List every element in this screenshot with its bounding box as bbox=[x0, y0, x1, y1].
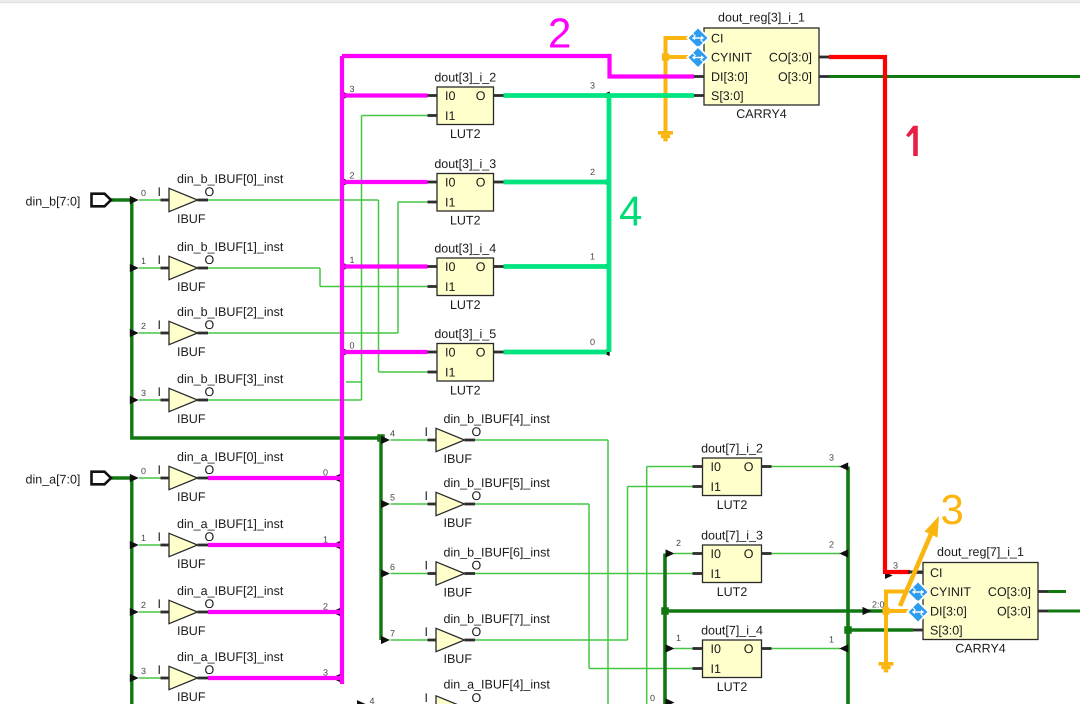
svg-text:2: 2 bbox=[323, 602, 328, 612]
svg-text:I1: I1 bbox=[711, 567, 721, 581]
svg-text:O[3:0]: O[3:0] bbox=[997, 605, 1031, 619]
svg-text:CI: CI bbox=[711, 32, 724, 46]
svg-text:IBUF: IBUF bbox=[444, 652, 473, 666]
svg-text:0: 0 bbox=[141, 466, 146, 476]
svg-text:I1: I1 bbox=[711, 480, 721, 494]
svg-text:I1: I1 bbox=[445, 366, 455, 380]
svg-text:IBUF: IBUF bbox=[444, 586, 473, 600]
svg-text:5: 5 bbox=[390, 493, 395, 503]
svg-text:4: 4 bbox=[370, 696, 375, 704]
svg-text:I1: I1 bbox=[711, 662, 721, 676]
svg-text:LUT2: LUT2 bbox=[717, 585, 748, 599]
svg-text:I1: I1 bbox=[445, 196, 455, 210]
svg-text:din_a_IBUF[1]_inst: din_a_IBUF[1]_inst bbox=[177, 517, 284, 531]
svg-text:I0: I0 bbox=[445, 89, 455, 103]
svg-text:IBUF: IBUF bbox=[177, 490, 206, 504]
svg-text:O: O bbox=[476, 89, 486, 103]
svg-text:LUT2: LUT2 bbox=[450, 127, 481, 141]
svg-text:I0: I0 bbox=[445, 260, 455, 274]
svg-text:I0: I0 bbox=[445, 346, 455, 360]
svg-text:O: O bbox=[744, 460, 754, 474]
svg-text:O: O bbox=[472, 558, 482, 572]
svg-text:I: I bbox=[158, 253, 161, 267]
svg-text:LUT2: LUT2 bbox=[717, 680, 748, 694]
svg-text:O: O bbox=[476, 346, 486, 360]
svg-text:LUT2: LUT2 bbox=[450, 298, 481, 312]
svg-text:3: 3 bbox=[141, 666, 146, 676]
svg-text:din_b_IBUF[7]_inst: din_b_IBUF[7]_inst bbox=[444, 612, 551, 626]
svg-text:din_b_IBUF[3]_inst: din_b_IBUF[3]_inst bbox=[177, 372, 284, 386]
svg-text:din_a_IBUF[4]_inst: din_a_IBUF[4]_inst bbox=[444, 678, 551, 692]
svg-text:din_b_IBUF[5]_inst: din_b_IBUF[5]_inst bbox=[444, 476, 551, 490]
svg-text:dout[7]_i_2: dout[7]_i_2 bbox=[701, 442, 763, 456]
svg-text:I: I bbox=[158, 185, 161, 199]
svg-text:7: 7 bbox=[390, 629, 395, 639]
svg-text:3: 3 bbox=[829, 453, 834, 463]
svg-text:O: O bbox=[472, 425, 482, 439]
svg-text:I: I bbox=[425, 489, 428, 503]
svg-text:IBUF: IBUF bbox=[177, 212, 206, 226]
svg-text:I: I bbox=[158, 463, 161, 477]
svg-text:3: 3 bbox=[941, 486, 964, 533]
svg-text:O: O bbox=[205, 463, 215, 477]
svg-text:I: I bbox=[425, 558, 428, 572]
svg-text:O: O bbox=[744, 642, 754, 656]
svg-text:CARRY4: CARRY4 bbox=[955, 642, 1006, 656]
svg-text:IBUF: IBUF bbox=[177, 280, 206, 294]
svg-text:O: O bbox=[472, 625, 482, 639]
svg-text:0: 0 bbox=[141, 188, 146, 198]
svg-text:dout[3]_i_3: dout[3]_i_3 bbox=[434, 157, 496, 171]
svg-text:din_a[7:0]: din_a[7:0] bbox=[26, 473, 81, 487]
svg-text:S[3:0]: S[3:0] bbox=[930, 624, 963, 638]
svg-text:O: O bbox=[205, 253, 215, 267]
svg-text:I: I bbox=[158, 597, 161, 611]
svg-text:1: 1 bbox=[590, 252, 595, 262]
svg-text:IBUF: IBUF bbox=[177, 412, 206, 426]
svg-text:I0: I0 bbox=[711, 547, 721, 561]
svg-text:CARRY4: CARRY4 bbox=[736, 107, 787, 121]
svg-text:I: I bbox=[425, 691, 428, 704]
svg-text:dout_reg[7]_i_1: dout_reg[7]_i_1 bbox=[937, 545, 1024, 559]
svg-text:O: O bbox=[205, 318, 215, 332]
svg-text:O: O bbox=[476, 260, 486, 274]
svg-text:S[3:0]: S[3:0] bbox=[711, 89, 744, 103]
svg-text:0: 0 bbox=[590, 337, 595, 347]
svg-text:dout[3]_i_4: dout[3]_i_4 bbox=[434, 242, 496, 256]
svg-text:CYINIT: CYINIT bbox=[711, 51, 752, 65]
svg-text:I1: I1 bbox=[445, 109, 455, 123]
svg-text:0: 0 bbox=[350, 341, 355, 351]
svg-text:3: 3 bbox=[893, 561, 898, 571]
svg-text:IBUF: IBUF bbox=[444, 452, 473, 466]
svg-text:dout_reg[3]_i_1: dout_reg[3]_i_1 bbox=[718, 11, 805, 25]
svg-text:1: 1 bbox=[829, 635, 834, 645]
svg-text:4: 4 bbox=[619, 188, 642, 235]
svg-text:2: 2 bbox=[141, 600, 146, 610]
svg-text:din_a_IBUF[3]_inst: din_a_IBUF[3]_inst bbox=[177, 650, 284, 664]
svg-text:3: 3 bbox=[323, 668, 328, 678]
svg-text:din_b[7:0]: din_b[7:0] bbox=[26, 195, 81, 209]
svg-text:I: I bbox=[425, 425, 428, 439]
svg-text:I0: I0 bbox=[711, 642, 721, 656]
svg-text:IBUF: IBUF bbox=[177, 345, 206, 359]
svg-text:din_a_IBUF[2]_inst: din_a_IBUF[2]_inst bbox=[177, 584, 284, 598]
svg-text:DI[3:0]: DI[3:0] bbox=[930, 605, 967, 619]
svg-text:O[3:0]: O[3:0] bbox=[778, 70, 812, 84]
svg-text:IBUF: IBUF bbox=[177, 690, 206, 704]
svg-text:4: 4 bbox=[390, 429, 395, 439]
svg-text:O: O bbox=[205, 385, 215, 399]
svg-text:0: 0 bbox=[323, 468, 328, 478]
svg-text:1: 1 bbox=[141, 256, 146, 266]
svg-text:CO[3:0]: CO[3:0] bbox=[988, 585, 1031, 599]
svg-text:I: I bbox=[158, 663, 161, 677]
svg-text:din_b_IBUF[2]_inst: din_b_IBUF[2]_inst bbox=[177, 305, 284, 319]
svg-text:2: 2 bbox=[829, 540, 834, 550]
svg-text:DI[3:0]: DI[3:0] bbox=[711, 70, 748, 84]
svg-text:din_b_IBUF[4]_inst: din_b_IBUF[4]_inst bbox=[444, 412, 551, 426]
svg-text:CO[3:0]: CO[3:0] bbox=[769, 51, 812, 65]
svg-text:1: 1 bbox=[676, 633, 681, 643]
svg-text:2: 2 bbox=[548, 10, 571, 57]
svg-text:dout[7]_i_4: dout[7]_i_4 bbox=[701, 624, 763, 638]
svg-text:din_b_IBUF[6]_inst: din_b_IBUF[6]_inst bbox=[444, 546, 551, 560]
svg-text:I: I bbox=[425, 625, 428, 639]
svg-text:O: O bbox=[205, 663, 215, 677]
svg-text:O: O bbox=[472, 691, 482, 704]
svg-text:I0: I0 bbox=[445, 176, 455, 190]
svg-text:dout[7]_i_3: dout[7]_i_3 bbox=[701, 529, 763, 543]
svg-text:O: O bbox=[205, 185, 215, 199]
svg-text:dout[3]_i_5: dout[3]_i_5 bbox=[434, 327, 496, 341]
svg-text:2: 2 bbox=[590, 167, 595, 177]
svg-text:din_b_IBUF[0]_inst: din_b_IBUF[0]_inst bbox=[177, 172, 284, 186]
svg-text:2: 2 bbox=[350, 171, 355, 181]
svg-text:2:0: 2:0 bbox=[872, 600, 885, 610]
svg-text:din_a_IBUF[0]_inst: din_a_IBUF[0]_inst bbox=[177, 450, 284, 464]
svg-text:O: O bbox=[472, 489, 482, 503]
svg-text:CYINIT: CYINIT bbox=[930, 585, 971, 599]
svg-text:2: 2 bbox=[141, 321, 146, 331]
svg-text:I: I bbox=[158, 318, 161, 332]
svg-text:3: 3 bbox=[350, 84, 355, 94]
svg-text:I0: I0 bbox=[711, 460, 721, 474]
svg-text:1: 1 bbox=[141, 533, 146, 543]
svg-text:2: 2 bbox=[676, 538, 681, 548]
svg-text:I: I bbox=[158, 530, 161, 544]
svg-text:I1: I1 bbox=[445, 280, 455, 294]
svg-text:IBUF: IBUF bbox=[444, 516, 473, 530]
svg-text:3: 3 bbox=[590, 81, 595, 91]
svg-text:O: O bbox=[205, 597, 215, 611]
svg-text:din_b_IBUF[1]_inst: din_b_IBUF[1]_inst bbox=[177, 240, 284, 254]
svg-text:IBUF: IBUF bbox=[177, 557, 206, 571]
svg-text:O: O bbox=[744, 547, 754, 561]
svg-text:I: I bbox=[158, 385, 161, 399]
svg-text:3: 3 bbox=[141, 388, 146, 398]
svg-text:0: 0 bbox=[650, 693, 655, 703]
svg-text:1: 1 bbox=[323, 535, 328, 545]
svg-text:CI: CI bbox=[930, 566, 943, 580]
svg-text:LUT2: LUT2 bbox=[717, 498, 748, 512]
svg-text:O: O bbox=[205, 530, 215, 544]
svg-text:IBUF: IBUF bbox=[177, 624, 206, 638]
svg-text:LUT2: LUT2 bbox=[450, 214, 481, 228]
svg-text:dout[3]_i_2: dout[3]_i_2 bbox=[434, 71, 496, 85]
svg-text:6: 6 bbox=[390, 562, 395, 572]
svg-text:LUT2: LUT2 bbox=[450, 384, 481, 398]
svg-text:1: 1 bbox=[350, 255, 355, 265]
svg-text:O: O bbox=[476, 176, 486, 190]
